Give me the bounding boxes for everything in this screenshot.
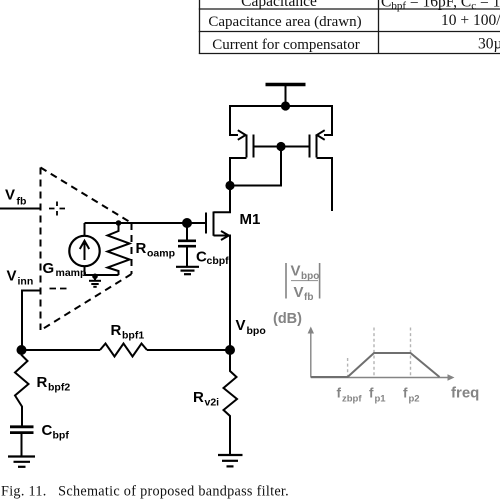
abs value right bar	[319, 263, 321, 299]
junction dot Roamp top	[116, 220, 122, 226]
abs value left bar	[285, 263, 287, 299]
svg-text:10 + 100/50: 10 + 100/50	[441, 12, 500, 29]
transistor PMOS right	[310, 105, 333, 211]
svg-text:f: f	[369, 386, 374, 401]
wire right PMOS gate lead	[281, 146, 310, 148]
ground (under Cbpf)	[8, 457, 35, 467]
capacitor Ccbpf	[178, 223, 196, 266]
transistor M1	[206, 185, 230, 350]
current source Gmamp	[69, 223, 99, 275]
svg-text:30µA: 30µA	[478, 36, 500, 53]
table (cropped at top)	[199, 0, 500, 54]
junction dot mirror gates	[276, 142, 285, 151]
wire Rbpf1 to Vbpo node	[147, 349, 230, 351]
ground (under Gmamp)	[89, 277, 101, 287]
svg-text:p2: p2	[409, 393, 420, 404]
label Vfb	[5, 187, 26, 208]
y axis	[310, 331, 312, 378]
junction dot node Vbpo	[225, 345, 235, 355]
bandpass response curve	[311, 353, 440, 377]
svg-text:fb: fb	[304, 292, 313, 303]
wire node A horizontal	[22, 349, 100, 351]
svg-text:V: V	[7, 268, 17, 285]
svg-text:inn: inn	[18, 276, 34, 288]
table bottom border	[199, 53, 500, 55]
label Rbpf2	[37, 374, 71, 394]
svg-text:Current for compensator: Current for compensator	[212, 37, 359, 53]
resistor Rbpf2	[15, 350, 29, 426]
fraction line	[291, 280, 318, 282]
svg-text:C: C	[42, 422, 53, 439]
op-amp Gm cell dashed outline	[41, 168, 132, 331]
junction dot Gmamp ground	[92, 274, 98, 280]
svg-text:R: R	[136, 240, 147, 257]
ground (under Ccbpf)	[176, 267, 199, 274]
label Roamp	[136, 240, 176, 260]
plus input mark	[49, 202, 65, 216]
svg-text:f: f	[337, 386, 342, 401]
minus input mark	[50, 288, 67, 290]
svg-text:bpf: bpf	[53, 430, 70, 442]
svg-text:R: R	[193, 389, 204, 406]
resistor Rbpf1	[100, 344, 147, 357]
svg-text:Cbpf = 16pF, Cc = 1: Cbpf = 16pF, Cc = 1	[381, 0, 500, 12]
wire VDD stem	[285, 86, 287, 106]
svg-text:M1: M1	[240, 211, 261, 228]
svg-text:p1: p1	[375, 393, 387, 404]
svg-text:fb: fb	[17, 196, 27, 208]
wire supply rail	[230, 105, 332, 107]
label Cbpf	[42, 422, 70, 442]
svg-text:mamp: mamp	[56, 267, 87, 279]
junction dot node A (Vinn/Rbpf1/Rbpf2)	[17, 345, 27, 355]
svg-text:G: G	[43, 260, 55, 277]
resistor Roamp	[108, 223, 130, 275]
svg-text:f: f	[403, 386, 408, 401]
table row line 1	[199, 8, 500, 10]
svg-text:R: R	[111, 322, 122, 339]
junction dot VDD rail	[281, 101, 290, 110]
svg-text:C: C	[196, 249, 207, 266]
label Rv2i	[193, 389, 219, 409]
y axis arrow	[308, 327, 314, 334]
wire amp output to M1 gate	[85, 222, 207, 224]
label Rbpf1	[111, 322, 145, 342]
capacitor Cbpf	[10, 427, 34, 456]
svg-text:R: R	[37, 374, 48, 391]
svg-text:Capacitance area (drawn): Capacitance area (drawn)	[208, 14, 361, 30]
VDD supply bar	[266, 83, 306, 87]
svg-text:cbpf: cbpf	[207, 255, 230, 267]
svg-text:Fig. 11. Schematic of propos: Fig. 11. Schematic of proposed bandpass …	[1, 484, 289, 500]
svg-text:V: V	[291, 263, 301, 280]
ground (under Rv2i)	[218, 455, 243, 466]
svg-text:zbpf: zbpf	[342, 393, 362, 404]
wire Gmamp/Roamp bottom	[85, 274, 119, 276]
x axis arrow	[448, 374, 455, 380]
label Vinn	[7, 268, 34, 288]
wire Vinn input	[22, 291, 42, 351]
svg-text:oamp: oamp	[147, 248, 175, 260]
x axis	[311, 377, 450, 379]
svg-text:(dB): (dB)	[273, 311, 302, 327]
svg-text:bpf1: bpf1	[122, 330, 144, 342]
wire left PMOS gate lead	[254, 146, 282, 148]
dashed line f_zbpf	[347, 358, 349, 377]
svg-text:freq: freq	[451, 385, 479, 402]
dashed line f_p2	[410, 328, 412, 378]
resistor Rv2i	[224, 350, 238, 454]
dashed line f_p1	[373, 328, 375, 378]
wire Vfb input	[0, 208, 42, 210]
svg-text:V: V	[236, 317, 246, 334]
transistor PMOS left (diode connected)	[230, 105, 254, 186]
table left border	[199, 0, 201, 54]
junction dot M1 gate / Ccbpf	[182, 218, 192, 228]
svg-text:v2i: v2i	[205, 397, 220, 409]
table row line 2	[199, 31, 500, 33]
label Vbpo	[236, 317, 266, 337]
svg-text:Capacitance: Capacitance	[241, 0, 317, 10]
label Ccbpf	[196, 249, 229, 268]
junction dot mirror drain / M1 drain	[225, 181, 234, 190]
svg-text:bpo: bpo	[301, 271, 319, 282]
table column separator	[378, 0, 380, 54]
label Gmamp	[43, 260, 87, 279]
svg-text:bpf2: bpf2	[48, 382, 70, 394]
svg-text:V: V	[294, 284, 304, 301]
wire mirror gate to drain link	[230, 147, 281, 186]
svg-text:V: V	[5, 187, 15, 204]
gray labels	[273, 263, 479, 405]
svg-text:bpo: bpo	[247, 325, 266, 337]
